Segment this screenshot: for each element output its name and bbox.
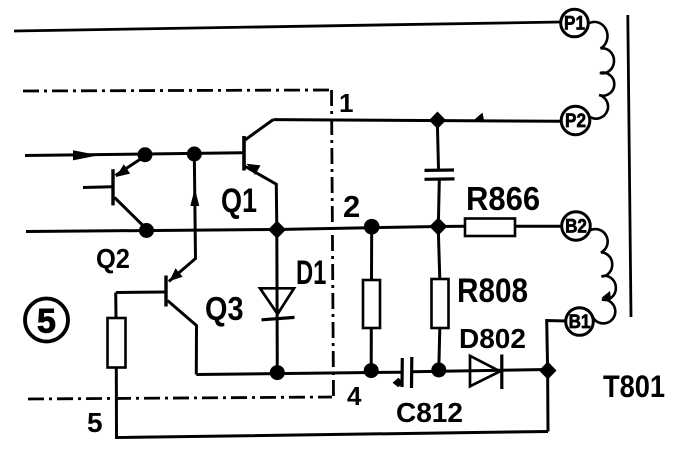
svg-text:P2: P2 [565,110,586,131]
svg-text:P1: P1 [564,13,585,34]
svg-text:D802: D802 [459,323,526,354]
svg-text:R866: R866 [466,180,540,217]
svg-text:Q3: Q3 [205,290,244,327]
svg-text:2: 2 [343,189,360,224]
svg-text:B2: B2 [565,216,587,237]
svg-text:D1: D1 [296,254,326,292]
svg-text:B1: B1 [569,311,591,332]
svg-text:5: 5 [87,407,103,438]
svg-text:1: 1 [339,88,353,118]
svg-text:R808: R808 [457,271,528,309]
svg-text:C812: C812 [396,397,463,428]
svg-text:T801: T801 [603,369,665,404]
svg-text:5: 5 [37,303,56,341]
svg-text:4: 4 [347,381,362,411]
svg-text:Q1: Q1 [221,181,257,220]
svg-text:Q2: Q2 [96,243,130,274]
